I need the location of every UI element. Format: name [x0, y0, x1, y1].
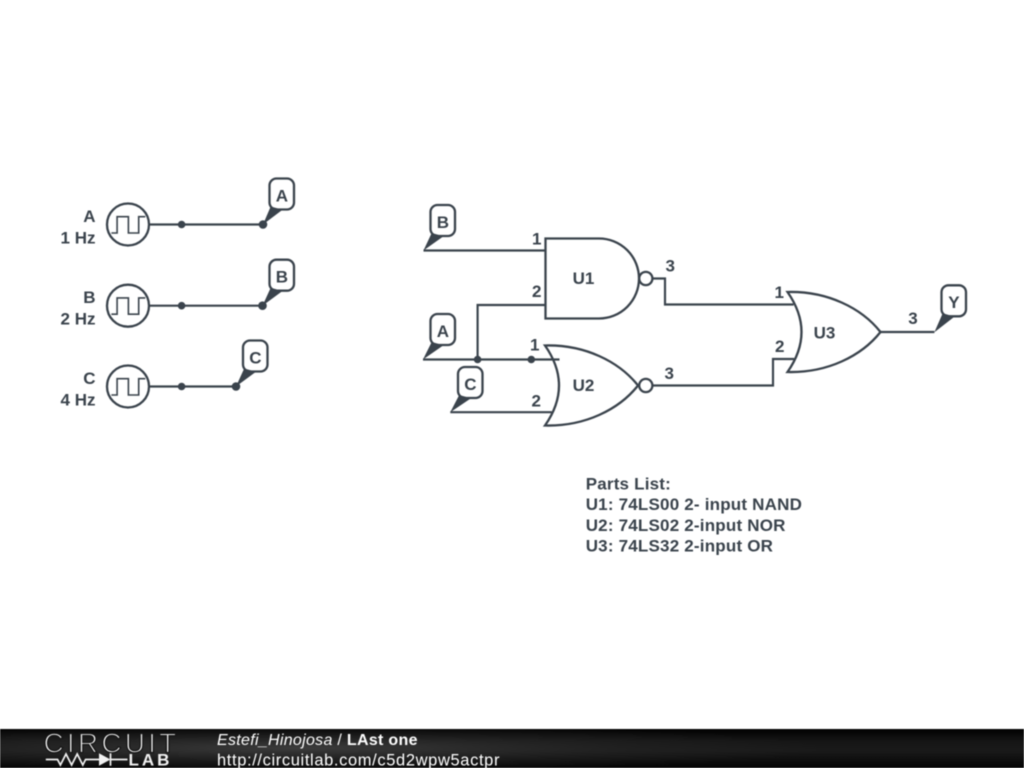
- svg-text:1: 1: [775, 283, 784, 302]
- svg-text:LAB: LAB: [129, 750, 173, 768]
- svg-text:C: C: [464, 375, 476, 394]
- svg-text:2: 2: [775, 337, 784, 356]
- svg-text:A: A: [83, 207, 95, 226]
- svg-text:U3: U3: [814, 323, 836, 342]
- svg-text:1: 1: [530, 336, 539, 355]
- svg-text:Y: Y: [948, 293, 960, 312]
- svg-text:C: C: [249, 348, 261, 367]
- svg-text:Parts List:: Parts List:: [586, 474, 671, 493]
- svg-text:B: B: [276, 268, 288, 287]
- svg-text:2: 2: [532, 391, 541, 410]
- svg-text:3: 3: [665, 364, 674, 383]
- svg-text:3: 3: [908, 309, 917, 328]
- svg-text:U2: 74LS02 2-input NOR: U2: 74LS02 2-input NOR: [586, 516, 786, 535]
- svg-text:1: 1: [532, 229, 541, 248]
- svg-text:4 Hz: 4 Hz: [61, 390, 96, 409]
- svg-text:2 Hz: 2 Hz: [61, 310, 96, 329]
- svg-text:3: 3: [666, 256, 675, 275]
- svg-text:U1: U1: [573, 269, 595, 288]
- svg-text:U1: 74LS00 2- input NAND: U1: 74LS00 2- input NAND: [586, 495, 802, 514]
- svg-text:2: 2: [532, 282, 541, 301]
- svg-text:A: A: [276, 186, 288, 205]
- svg-text:B: B: [437, 213, 449, 232]
- svg-text:Estefi_Hinojosa / LAst one: Estefi_Hinojosa / LAst one: [217, 732, 418, 749]
- svg-text:B: B: [83, 288, 95, 307]
- svg-text:U3: 74LS32 2-input OR: U3: 74LS32 2-input OR: [586, 537, 773, 556]
- svg-text:http://circuitlab.com/c5d2wpw5: http://circuitlab.com/c5d2wpw5actpr: [217, 751, 500, 768]
- svg-text:C: C: [83, 369, 95, 388]
- svg-text:A: A: [437, 322, 449, 341]
- svg-text:1 Hz: 1 Hz: [61, 228, 96, 247]
- svg-text:U2: U2: [573, 376, 595, 395]
